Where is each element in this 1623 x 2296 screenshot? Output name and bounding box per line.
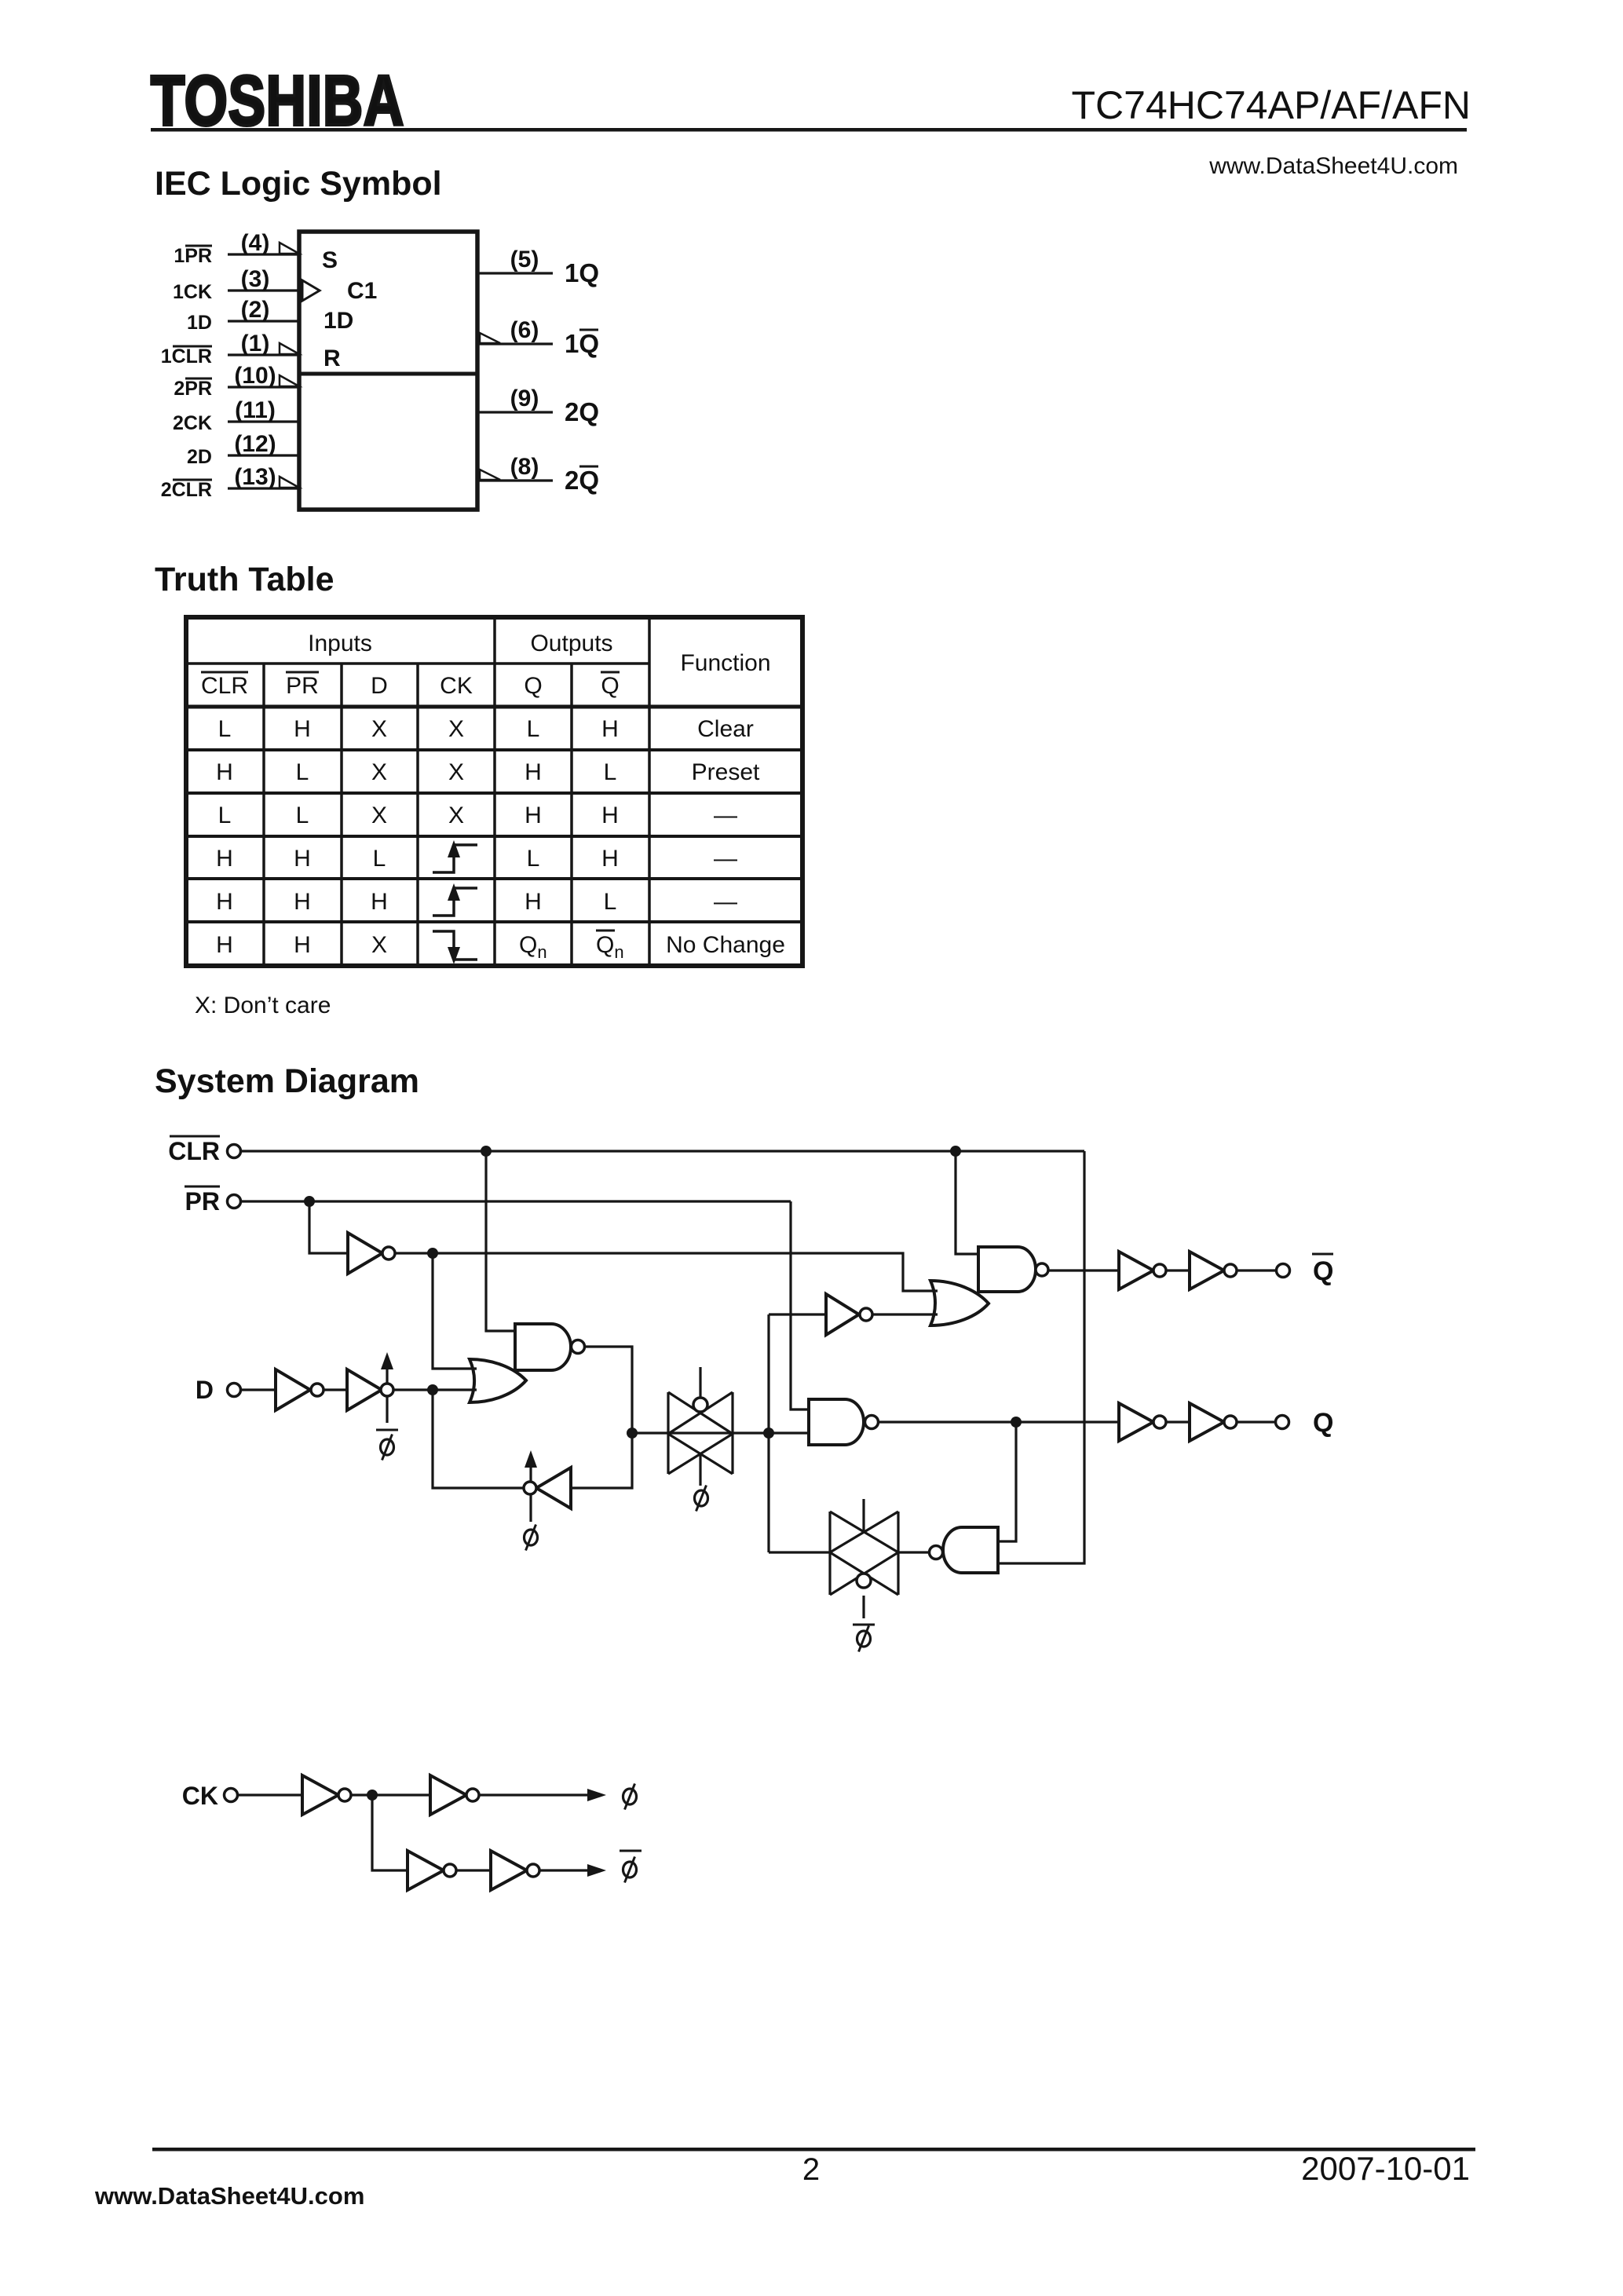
svg-text:(5): (5): [510, 247, 539, 272]
svg-text:H: H: [371, 889, 388, 915]
svg-text:(1): (1): [241, 331, 270, 356]
svg-text:CK: CK: [182, 1782, 218, 1810]
svg-text:1Q: 1Q: [565, 258, 599, 287]
svg-text:H: H: [216, 932, 233, 958]
svg-text:S: S: [322, 247, 338, 273]
svg-text:H: H: [601, 716, 619, 742]
svg-text:2007-10-01: 2007-10-01: [1301, 2150, 1470, 2187]
svg-text:System Diagram: System Diagram: [155, 1062, 419, 1100]
svg-text:(13): (13): [234, 464, 276, 490]
svg-text:H: H: [294, 889, 311, 915]
svg-text:X: X: [448, 803, 464, 828]
svg-text:PR: PR: [185, 1187, 220, 1216]
svg-text:Q: Q: [601, 673, 619, 699]
svg-text:D: D: [196, 1376, 214, 1404]
svg-text:Q: Q: [1313, 1256, 1333, 1286]
svg-text:CLR: CLR: [201, 673, 248, 699]
svg-text:2Q: 2Q: [565, 466, 599, 495]
svg-text:Function: Function: [680, 650, 770, 676]
svg-text:Outputs: Outputs: [530, 631, 612, 656]
svg-text:L: L: [296, 759, 309, 785]
svg-text:C1: C1: [347, 278, 377, 304]
svg-text:—: —: [714, 846, 737, 872]
svg-text:(9): (9): [510, 386, 539, 411]
svg-text:H: H: [294, 932, 311, 958]
svg-text:1D: 1D: [187, 312, 212, 334]
svg-text:2: 2: [802, 2152, 820, 2187]
svg-text:—: —: [714, 803, 737, 828]
svg-text:X: X: [371, 759, 387, 785]
svg-text:1PR: 1PR: [174, 245, 212, 267]
svg-text:(11): (11): [235, 397, 276, 423]
svg-text:X: Don’t care: X: Don’t care: [195, 993, 331, 1018]
svg-text:X: X: [371, 932, 387, 958]
svg-text:Preset: Preset: [692, 759, 760, 785]
svg-text:www.DataSheet4U.com: www.DataSheet4U.com: [94, 2182, 364, 2210]
svg-text:L: L: [604, 889, 617, 915]
svg-text:X: X: [448, 716, 464, 742]
svg-text:L: L: [604, 759, 617, 785]
svg-text:Clear: Clear: [697, 716, 754, 742]
svg-text:2CLR: 2CLR: [161, 479, 212, 501]
svg-text:L: L: [527, 716, 540, 742]
svg-text:H: H: [216, 759, 233, 785]
svg-text:1CK: 1CK: [173, 281, 212, 303]
svg-text:X: X: [448, 759, 464, 785]
svg-text:CK: CK: [440, 673, 473, 699]
svg-text:IEC Logic Symbol: IEC Logic Symbol: [155, 165, 442, 203]
svg-text:X: X: [371, 803, 387, 828]
svg-text:(2): (2): [241, 297, 270, 323]
svg-text:L: L: [218, 803, 232, 828]
svg-text:H: H: [525, 889, 542, 915]
svg-text:(10): (10): [234, 363, 276, 389]
svg-text:No Change: No Change: [666, 932, 785, 958]
svg-text:H: H: [216, 846, 233, 872]
svg-text:H: H: [525, 759, 542, 785]
svg-text:R: R: [324, 345, 341, 371]
svg-text:Q: Q: [1313, 1408, 1333, 1438]
svg-text:H: H: [525, 803, 542, 828]
svg-text:Inputs: Inputs: [308, 631, 372, 656]
svg-text:(6): (6): [510, 317, 539, 343]
svg-text:L: L: [218, 716, 232, 742]
svg-text:2CK: 2CK: [173, 412, 212, 434]
svg-text:1CLR: 1CLR: [161, 345, 212, 367]
svg-text:Q: Q: [524, 673, 542, 699]
svg-text:www.DataSheet4U.com: www.DataSheet4U.com: [1208, 153, 1458, 179]
svg-text:H: H: [294, 846, 311, 872]
svg-text:L: L: [373, 846, 386, 872]
svg-text:CLR: CLR: [168, 1137, 220, 1165]
svg-text:L: L: [296, 803, 309, 828]
svg-text:1Q: 1Q: [565, 329, 599, 358]
svg-text:—: —: [714, 889, 737, 915]
svg-text:(3): (3): [241, 266, 270, 292]
svg-text:(12): (12): [234, 431, 276, 457]
svg-text:H: H: [601, 846, 619, 872]
svg-text:2D: 2D: [187, 446, 212, 468]
svg-text:PR: PR: [286, 673, 319, 699]
svg-text:1D: 1D: [324, 308, 353, 334]
svg-text:Truth Table: Truth Table: [155, 561, 334, 598]
svg-text:L: L: [527, 846, 540, 872]
svg-text:(8): (8): [510, 454, 539, 480]
svg-text:X: X: [371, 716, 387, 742]
svg-text:(4): (4): [241, 230, 270, 256]
svg-text:H: H: [216, 889, 233, 915]
svg-text:2Q: 2Q: [565, 397, 599, 426]
svg-text:2PR: 2PR: [174, 378, 212, 400]
svg-text:TC74HC74AP/AF/AFN: TC74HC74AP/AF/AFN: [1072, 83, 1471, 127]
svg-text:H: H: [601, 803, 619, 828]
svg-text:H: H: [294, 716, 311, 742]
svg-text:D: D: [371, 673, 388, 699]
